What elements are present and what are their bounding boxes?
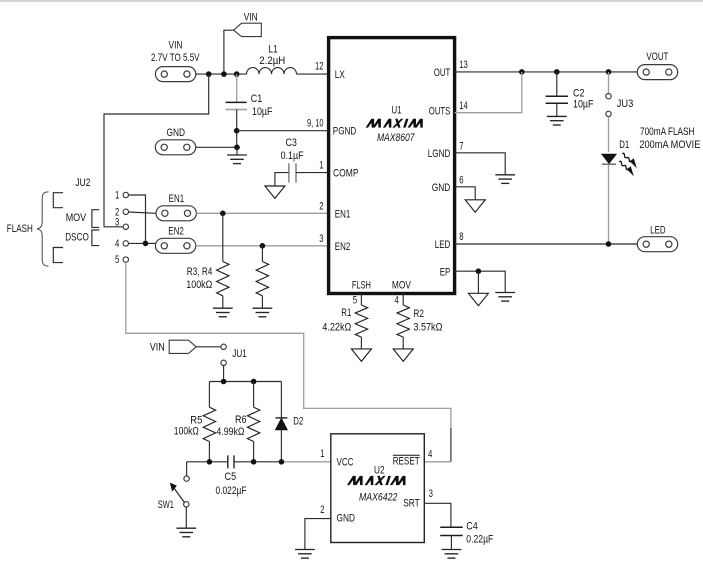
svg-text:LED: LED <box>650 224 666 236</box>
svg-text:D2: D2 <box>293 416 303 428</box>
svg-text:4: 4 <box>428 448 432 460</box>
logo MAXIM U2 <box>347 476 408 485</box>
svg-text:1: 1 <box>319 160 323 172</box>
svg-text:MAX8607: MAX8607 <box>377 132 415 144</box>
svg-text:700mA FLASH: 700mA FLASH <box>640 126 695 138</box>
svg-text:JU1: JU1 <box>232 348 247 360</box>
capacitor C1 <box>226 101 247 103</box>
wire OUTS loop <box>455 72 522 113</box>
bracket bottom <box>53 248 63 263</box>
wire EN1 to IC <box>196 212 328 214</box>
svg-text:U1: U1 <box>392 105 402 117</box>
wire C1 to PGND row <box>236 110 238 148</box>
svg-text:MOV: MOV <box>66 212 87 224</box>
svg-text:EN1: EN1 <box>335 208 351 220</box>
svg-text:VIN: VIN <box>169 40 183 52</box>
svg-text:R2: R2 <box>413 308 424 320</box>
svg-text:C4: C4 <box>466 520 478 532</box>
resistor R5 <box>208 382 210 408</box>
svg-text:GND: GND <box>167 127 186 139</box>
svg-text:0.022µF: 0.022µF <box>216 485 247 497</box>
svg-text:FLSH: FLSH <box>352 279 371 291</box>
svg-text:100kΩ: 100kΩ <box>186 279 212 291</box>
inductor L1 <box>247 68 297 74</box>
svg-text:DSCO: DSCO <box>65 232 89 244</box>
svg-text:13: 13 <box>459 59 468 71</box>
svg-text:VIN: VIN <box>244 11 258 23</box>
svg-text:R1: R1 <box>341 307 351 319</box>
resistor R6 <box>253 382 255 408</box>
header pins 1-5 <box>123 192 128 197</box>
wire C3 to COMP <box>296 172 329 174</box>
svg-text:5: 5 <box>115 254 119 266</box>
svg-text:LED: LED <box>435 239 451 251</box>
resistor R4 <box>261 246 263 262</box>
bracket MOV <box>92 210 99 228</box>
svg-text:6: 6 <box>459 175 463 187</box>
svg-text:14: 14 <box>459 100 468 112</box>
svg-text:SRT: SRT <box>403 497 420 509</box>
svg-text:VCC: VCC <box>337 457 354 469</box>
svg-text:LX: LX <box>335 69 345 81</box>
connector VOUT <box>637 65 677 80</box>
svg-text:RESET: RESET <box>393 455 420 467</box>
capacitor C5 <box>227 455 229 468</box>
svg-text:SW1: SW1 <box>158 499 174 511</box>
diode D2 <box>280 382 282 418</box>
svg-text:OUTS: OUTS <box>429 106 451 118</box>
svg-text:2: 2 <box>319 200 323 212</box>
wire EN2 to IC <box>196 245 329 247</box>
flag VIN (top) <box>234 23 262 36</box>
svg-text:GND: GND <box>432 182 451 194</box>
wire pin4 to EN2 pad <box>129 242 156 244</box>
svg-text:VIN: VIN <box>150 341 165 353</box>
svg-text:12: 12 <box>315 61 324 73</box>
svg-text:COMP: COMP <box>333 168 359 180</box>
wire pin2 to EN1 pad <box>129 212 157 213</box>
wire PGND row to IC <box>237 130 329 132</box>
wire rail down to C1 <box>236 74 238 102</box>
svg-text:MOV: MOV <box>392 279 411 291</box>
svg-text:OUT: OUT <box>434 67 451 79</box>
svg-text:C1: C1 <box>251 93 262 105</box>
brace FLASH <box>37 192 49 266</box>
svg-text:FLASH: FLASH <box>7 223 33 235</box>
svg-text:9, 10: 9, 10 <box>307 117 324 129</box>
resistor R3 <box>222 213 224 261</box>
capacitor C3 plates <box>288 163 290 182</box>
svg-text:100kΩ: 100kΩ <box>174 426 199 438</box>
logo MAXIM U1 <box>366 119 426 128</box>
svg-text:8: 8 <box>459 231 463 243</box>
svg-text:4.99kΩ: 4.99kΩ <box>216 426 244 438</box>
svg-text:GND: GND <box>337 513 356 525</box>
svg-text:LGND: LGND <box>428 148 451 160</box>
svg-text:PGND: PGND <box>333 126 357 138</box>
svg-text:3: 3 <box>319 233 323 245</box>
bracket DSCO <box>92 230 99 246</box>
svg-text:2: 2 <box>320 504 324 516</box>
wire C3 left to triangle gnd <box>275 173 289 186</box>
svg-text:2.2µH: 2.2µH <box>259 55 285 67</box>
svg-text:7: 7 <box>459 140 463 152</box>
wire L1 to LX <box>297 73 329 75</box>
svg-text:4: 4 <box>395 295 399 307</box>
svg-text:0.22µF: 0.22µF <box>466 533 493 545</box>
svg-text:2.7V TO 5.5V: 2.7V TO 5.5V <box>151 52 200 64</box>
wire flag to rail <box>224 30 234 74</box>
svg-text:4: 4 <box>115 238 119 250</box>
svg-text:VOUT: VOUT <box>646 51 668 63</box>
svg-text:EP: EP <box>440 266 451 278</box>
svg-text:R5: R5 <box>190 414 202 426</box>
svg-text:3: 3 <box>429 488 433 500</box>
svg-text:1: 1 <box>115 190 119 202</box>
svg-text:200mA MOVIE: 200mA MOVIE <box>639 139 700 151</box>
svg-text:10µF: 10µF <box>252 106 273 118</box>
svg-text:1: 1 <box>320 448 324 460</box>
bracket top <box>53 193 63 208</box>
wire VIN pad to L1 <box>196 73 247 75</box>
svg-text:L1: L1 <box>268 44 278 56</box>
svg-text:EN2: EN2 <box>335 241 351 253</box>
svg-text:R6: R6 <box>235 414 247 426</box>
svg-text:EN1: EN1 <box>169 193 185 205</box>
svg-text:D1: D1 <box>619 139 629 151</box>
svg-text:MAX6422: MAX6422 <box>359 492 398 504</box>
connector J VIN <box>155 67 195 82</box>
svg-text:3.57kΩ: 3.57kΩ <box>413 322 442 334</box>
node PGND <box>234 128 240 134</box>
node EN1 <box>220 211 226 217</box>
LED D1 <box>602 154 616 163</box>
svg-text:JU2: JU2 <box>75 177 90 189</box>
wire from VIN rail to pin3 <box>104 74 209 227</box>
node on rail <box>206 71 212 77</box>
svg-text:0.1µF: 0.1µF <box>281 150 304 162</box>
svg-text:U2: U2 <box>374 465 385 477</box>
lever <box>174 488 185 503</box>
svg-text:4.22kΩ: 4.22kΩ <box>322 321 351 333</box>
svg-text:10µF: 10µF <box>573 98 594 110</box>
svg-text:C5: C5 <box>225 471 237 483</box>
svg-text:EN2: EN2 <box>168 226 184 238</box>
ground <box>236 147 238 155</box>
node EN2 <box>260 243 266 249</box>
LED arrows <box>622 153 631 161</box>
svg-text:5: 5 <box>353 295 357 307</box>
svg-text:R3, R4: R3, R4 <box>187 266 213 278</box>
page top border <box>0 0 703 2</box>
svg-text:JU3: JU3 <box>617 98 634 110</box>
wire pin1 down to pin4 row <box>129 195 146 243</box>
svg-text:C3: C3 <box>285 137 297 149</box>
